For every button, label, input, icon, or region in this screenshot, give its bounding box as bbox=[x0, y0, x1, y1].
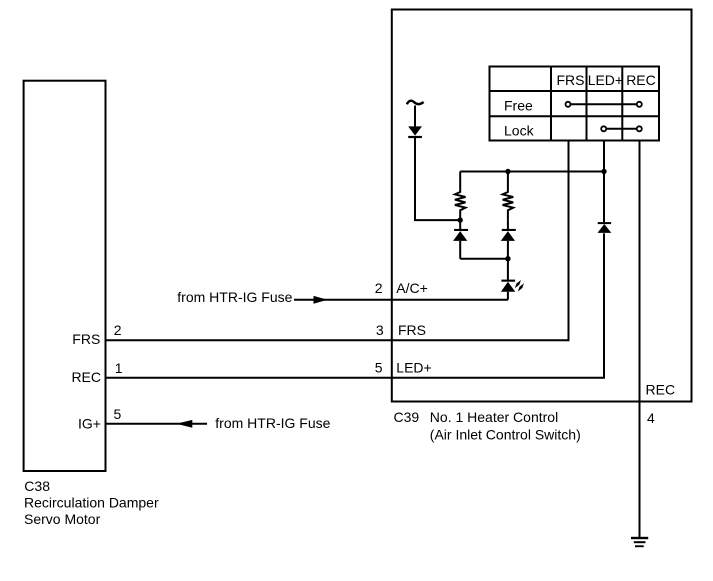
svg-text:Recirculation Damper: Recirculation Damper bbox=[24, 495, 159, 511]
LED emission arrows bbox=[515, 280, 521, 288]
svg-text:No. 1 Heater Control: No. 1 Heater Control bbox=[430, 409, 558, 425]
connector box C39 (No. 1 Heater Control) bbox=[392, 10, 692, 402]
arrow on IG+ wire (pointing left) bbox=[176, 420, 192, 428]
wire REC column down to ground bbox=[639, 141, 641, 538]
svg-text:C38: C38 bbox=[24, 478, 50, 494]
diode D3 (pointing up, under R2) bbox=[507, 220, 509, 231]
svg-text:A/C+: A/C+ bbox=[396, 280, 428, 296]
wire FRS: C38 pin2 to C39 pin3 bbox=[106, 141, 569, 341]
top bus wire bbox=[460, 171, 604, 173]
resistor R1 bbox=[455, 172, 466, 221]
svg-text:5: 5 bbox=[114, 406, 122, 422]
svg-text:LED+: LED+ bbox=[588, 72, 623, 88]
svg-text:REC: REC bbox=[71, 369, 101, 385]
diode D1 (pointing down) bbox=[408, 126, 422, 135]
svg-text:3: 3 bbox=[376, 322, 384, 338]
svg-text:2: 2 bbox=[114, 322, 122, 338]
svg-text:FRS: FRS bbox=[398, 322, 426, 338]
svg-text:FRS: FRS bbox=[557, 72, 585, 88]
bottom wire joining D2/D3 bbox=[460, 258, 508, 260]
node: D3/LED junction bbox=[505, 256, 510, 261]
svg-text:from HTR-IG Fuse: from HTR-IG Fuse bbox=[215, 415, 330, 431]
diode D2 (pointing up, under R1) bbox=[459, 220, 461, 231]
ground symbol bbox=[631, 537, 648, 547]
svg-text:IG+: IG+ bbox=[78, 416, 101, 432]
node: R1/D1 junction bbox=[458, 217, 463, 222]
svg-text:REC: REC bbox=[646, 381, 676, 397]
wire REC/LED+: C38 pin1 to C39 pin5 bbox=[106, 233, 605, 377]
LED (cathode up) bbox=[507, 259, 509, 282]
wire from break symbol down to diode D1 bbox=[414, 106, 416, 127]
svg-text:4: 4 bbox=[647, 410, 655, 426]
svg-text:1: 1 bbox=[115, 360, 123, 376]
diode D4 (pointing up, on LED+ line) bbox=[598, 222, 611, 224]
Free row contact: FRS to REC bbox=[568, 103, 639, 105]
node: bus to LED+ line bbox=[601, 169, 606, 174]
svg-text:Servo Motor: Servo Motor bbox=[24, 511, 101, 527]
svg-text:(Air Inlet Control Switch): (Air Inlet Control Switch) bbox=[430, 427, 581, 443]
svg-text:C39: C39 bbox=[394, 409, 420, 425]
svg-text:Free: Free bbox=[504, 98, 533, 114]
Lock row contact: LED+ to REC bbox=[604, 128, 640, 130]
wire D1 to resistor junction bbox=[415, 137, 460, 220]
connector box C38 (Recirculation Damper Servo Motor) bbox=[24, 81, 106, 471]
wire LED+ column down to diode D4 bbox=[603, 141, 605, 223]
svg-text:FRS: FRS bbox=[72, 331, 100, 347]
svg-text:2: 2 bbox=[375, 280, 383, 296]
svg-text:LED+: LED+ bbox=[396, 360, 431, 376]
switch table frame bbox=[490, 67, 660, 141]
wire IG+ from HTR-IG fuse bbox=[106, 423, 208, 425]
resistor R2 bbox=[503, 172, 514, 221]
svg-text:5: 5 bbox=[375, 360, 383, 376]
svg-text:Lock: Lock bbox=[504, 123, 535, 139]
wire A/C+ feed from HTR-IG fuse bbox=[294, 299, 508, 301]
arrow on A/C+ wire (pointing right) bbox=[314, 296, 328, 304]
svg-text:REC: REC bbox=[626, 72, 656, 88]
node: bus to R2 bbox=[505, 169, 510, 174]
svg-text:from HTR-IG Fuse: from HTR-IG Fuse bbox=[177, 289, 292, 305]
break symbol (wavy line) bbox=[407, 101, 424, 105]
